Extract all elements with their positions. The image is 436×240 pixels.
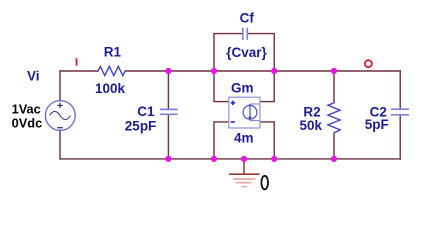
svg-text:Vi: Vi [27,68,40,83]
svg-text:{Cvar}: {Cvar} [226,45,267,60]
svg-text:100k: 100k [95,81,126,96]
svg-text:R1: R1 [104,45,122,60]
svg-text:5pF: 5pF [365,117,389,132]
svg-text:1Vac: 1Vac [12,101,41,116]
svg-text:Cf: Cf [240,10,255,25]
svg-text:50k: 50k [300,118,323,133]
svg-text:25pF: 25pF [125,118,157,133]
svg-text:C1: C1 [137,104,155,119]
svg-text:4m: 4m [234,130,254,145]
svg-text:0Vdc: 0Vdc [12,116,43,131]
svg-text:Gm: Gm [231,81,254,96]
